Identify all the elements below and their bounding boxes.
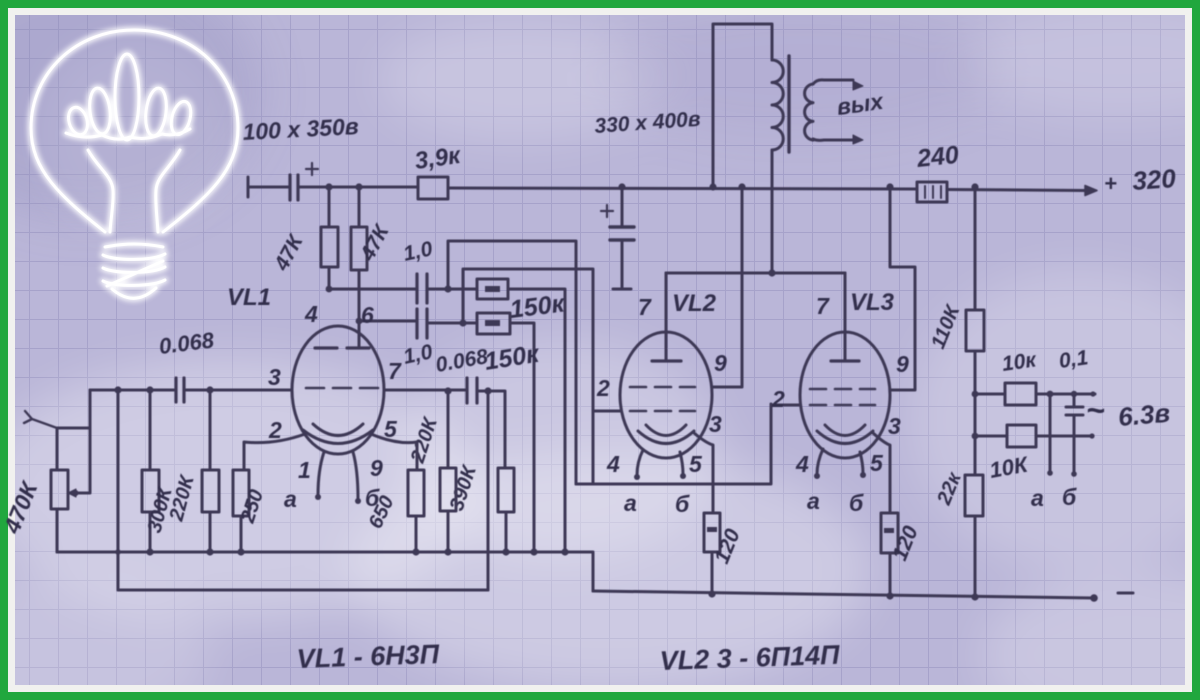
wire anode2 line	[359, 321, 534, 552]
svg-text:7: 7	[388, 358, 402, 384]
wire VL1 grid right 0.068	[384, 390, 505, 468]
junctions ground rail A	[115, 548, 568, 555]
label 120 VL3	[888, 522, 923, 563]
wire VL3 screen to rail	[890, 187, 915, 390]
svg-text:2: 2	[771, 386, 785, 412]
cathode arcs VL1	[303, 424, 373, 444]
resistor 47К #1	[321, 187, 338, 289]
label вых	[835, 88, 886, 120]
svg-text:VL1: VL1	[227, 284, 271, 311]
svg-text:б: б	[675, 491, 690, 517]
label 100x350в	[242, 113, 360, 145]
resistor 150к #2	[477, 313, 510, 334]
wire heater line b	[975, 435, 1093, 438]
wire anode bus	[666, 272, 845, 275]
label 390К	[446, 462, 482, 514]
resistor 10К #2	[1007, 425, 1036, 447]
svg-text:VL2 3 - 6П14П: VL2 3 - 6П14П	[659, 640, 840, 676]
junctions input line	[72, 386, 214, 496]
svg-text:6: 6	[361, 302, 374, 328]
label 120 VL2	[710, 525, 745, 566]
capacitor electrolytic 330x400	[601, 187, 634, 289]
pin labels VL1	[268, 301, 402, 512]
label 220К right	[407, 414, 443, 467]
svg-text:9: 9	[370, 455, 383, 481]
wire VL1 pin5 lead	[371, 434, 417, 470]
capacitor 1,0 #2	[417, 309, 427, 338]
svg-text:а: а	[807, 488, 820, 514]
anode bars VL1	[315, 346, 369, 349]
capacitor 0.068 input	[176, 378, 184, 402]
svg-text:~: ~	[1086, 392, 1105, 428]
label 47К #1	[270, 230, 309, 276]
svg-text:б: б	[849, 490, 864, 516]
label 10К #2	[988, 451, 1031, 482]
svg-text:320: 320	[1131, 163, 1177, 196]
svg-text:3: 3	[709, 411, 722, 437]
label 240	[915, 141, 960, 173]
resistor 47К #2	[351, 187, 367, 348]
caption VL2,3 6П14П	[659, 640, 840, 676]
wire VL3 g1 left	[771, 404, 800, 407]
resistor 220К left	[202, 390, 219, 552]
svg-text:4: 4	[606, 451, 620, 477]
svg-text:2: 2	[596, 375, 610, 401]
resistor 3,9к	[418, 177, 448, 199]
heater leads VL3	[814, 449, 866, 479]
input arrow of pot	[24, 411, 57, 428]
minus tick	[1118, 592, 1133, 595]
labels VL3	[771, 289, 909, 516]
tube VL3 envelope	[800, 332, 890, 458]
wire B+ rail	[248, 187, 1085, 191]
label 3,9к	[413, 142, 464, 175]
arrow +320	[1085, 186, 1097, 196]
label 110К	[927, 301, 965, 352]
capacitor 0.068 #2 bars	[467, 378, 477, 403]
svg-text:9: 9	[896, 351, 909, 377]
label 10к #1	[1000, 348, 1038, 376]
resistor 650	[408, 470, 424, 552]
svg-text:9: 9	[714, 350, 727, 376]
potentiometer 470К	[51, 390, 90, 552]
label 0.068 input	[158, 327, 216, 359]
cathode arcs VL2	[638, 425, 694, 444]
svg-text:3: 3	[268, 364, 281, 390]
wire input line	[90, 389, 292, 392]
labels VL2	[596, 290, 727, 517]
grid dashes VL2	[630, 387, 695, 411]
wire VL3 cathode lead	[873, 433, 890, 513]
capacitor C-in 100x350 bars	[290, 175, 298, 200]
label 470К	[0, 477, 43, 538]
secondary leads with arrows	[813, 80, 863, 144]
junctions ground rail C	[708, 590, 1097, 601]
svg-text:4: 4	[795, 451, 809, 477]
wire VL2 cathode lead	[694, 433, 713, 513]
svg-text:0,1: 0,1	[1057, 346, 1089, 373]
svg-text:10к: 10к	[1000, 348, 1038, 376]
label ~6.3в	[1086, 392, 1171, 432]
wire VL2 g1 left	[593, 410, 620, 413]
label 250	[237, 487, 269, 526]
svg-text:VL3: VL3	[850, 289, 895, 316]
polarity plus of C-in	[306, 163, 318, 175]
wire ground rail C	[593, 591, 1094, 598]
grid dashes VL3	[810, 389, 875, 405]
wire VL1 pin2 lead	[244, 434, 305, 470]
resistor 120 VL3	[881, 513, 898, 596]
wire VL2 screen to rail	[712, 187, 742, 387]
resistor 22к	[965, 475, 983, 516]
junctions heater lines	[972, 391, 1096, 440]
resistor 220К right	[440, 391, 456, 552]
wire 110К column	[974, 187, 977, 597]
svg-text:VL2: VL2	[672, 290, 717, 317]
svg-text:1: 1	[298, 457, 311, 483]
lightbulb logo	[31, 30, 238, 298]
primary coil	[772, 60, 783, 150]
svg-text:б: б	[1062, 484, 1077, 510]
svg-text:5: 5	[870, 450, 884, 476]
svg-text:3: 3	[888, 413, 901, 439]
heater leads VL1	[315, 452, 361, 504]
wire grid node to rail B	[487, 391, 490, 590]
heater leads VL2	[634, 450, 686, 480]
label 1,0 #1	[401, 237, 435, 266]
svg-text:2: 2	[268, 417, 282, 443]
tube VL1 envelope	[292, 326, 384, 454]
wire rail B	[118, 589, 488, 592]
input terminal tick	[247, 177, 250, 197]
label 650	[365, 493, 399, 533]
svg-text:а: а	[1031, 485, 1044, 511]
wire loop A	[448, 241, 576, 484]
junctions on B+ rail	[325, 183, 978, 190]
label 220К left	[165, 472, 199, 524]
resistor 110К	[966, 310, 984, 351]
resistor 10к #1	[1005, 383, 1036, 405]
transformer T1 primary loop	[713, 24, 772, 273]
label +320	[1104, 163, 1177, 196]
svg-text:7: 7	[816, 293, 830, 319]
junctions anode and grid nodes	[326, 269, 776, 394]
label 150к #2	[483, 340, 542, 376]
label 150к #1	[508, 289, 567, 324]
label 22к	[933, 469, 966, 509]
label 0.068 #2	[434, 345, 490, 377]
svg-text:+: +	[1104, 171, 1117, 196]
wire ground rail A	[57, 552, 593, 591]
svg-text:VL1 - 6Н3П: VL1 - 6Н3П	[296, 639, 440, 674]
label 0,1	[1057, 346, 1089, 373]
labels a b right	[1031, 484, 1077, 511]
resistor 240	[917, 182, 947, 202]
svg-text:5: 5	[689, 451, 703, 477]
capacitor 0,1	[1066, 394, 1083, 477]
core	[787, 56, 790, 152]
svg-text:240: 240	[915, 141, 960, 173]
resistor 300К	[142, 390, 159, 552]
anode lead VL3	[831, 273, 859, 361]
anode lead VL2	[652, 273, 681, 361]
grid dashes VL1	[306, 387, 378, 390]
svg-text:5: 5	[384, 416, 398, 442]
resistor 150к #1	[477, 279, 508, 299]
svg-text:4: 4	[304, 301, 318, 327]
wire VL2 VL3 grid bus	[576, 404, 771, 484]
tube VL2 envelope	[620, 332, 712, 458]
svg-text:б: б	[365, 485, 380, 511]
secondary coil	[805, 84, 813, 140]
label 1,0 #2	[401, 340, 435, 369]
svg-text:7: 7	[638, 294, 652, 320]
wire anode1 line	[329, 289, 565, 552]
svg-text:6.3в: 6.3в	[1117, 398, 1172, 432]
wire heater line a	[975, 393, 1095, 396]
label 300К	[144, 484, 178, 535]
caption VL1 6Н3П	[296, 639, 440, 674]
capacitor 1,0 #1	[417, 274, 427, 303]
svg-text:а: а	[284, 486, 297, 512]
label VL1	[227, 284, 271, 311]
resistor 390К	[498, 468, 514, 552]
resistor 250	[233, 470, 249, 552]
svg-text:а: а	[624, 490, 637, 516]
cathode arcs VL3	[817, 425, 873, 444]
stub a	[1047, 394, 1053, 476]
resistor 120 VL2	[704, 513, 720, 594]
wire loop B	[463, 269, 593, 484]
wire input down to rail B	[117, 390, 120, 590]
label 330x400в	[594, 108, 702, 138]
label 47К #2	[356, 220, 395, 266]
